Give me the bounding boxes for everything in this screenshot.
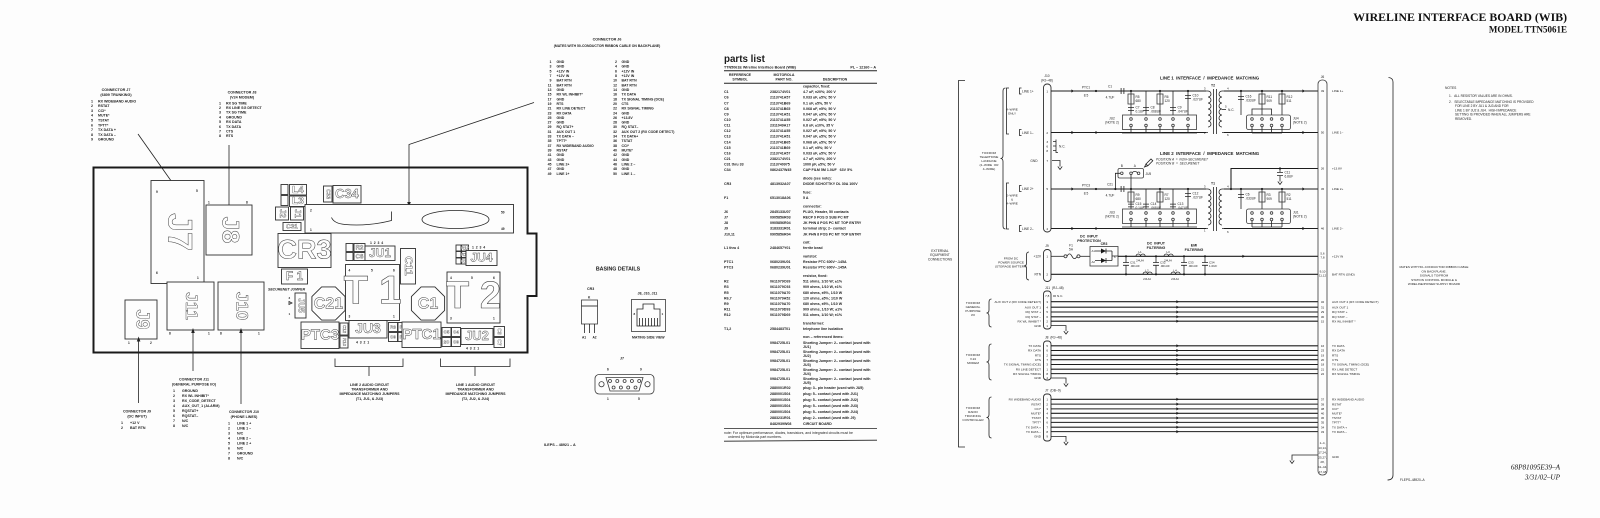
svg-text:34: 34 — [613, 135, 617, 139]
svg-text:44: 44 — [613, 158, 617, 162]
svg-text:JU1): JU1) — [803, 345, 812, 349]
jumper headers J2 J1 (board) — [276, 207, 289, 220]
svg-text:LINE 2 AUDIO CIRCUIT: LINE 2 AUDIO CIRCUIT — [350, 383, 390, 387]
svg-text:RECP 9 POS D SUB PC MT: RECP 9 POS D SUB PC MT — [803, 216, 850, 220]
svg-text:SYMBOL: SYMBOL — [732, 77, 748, 81]
svg-text:3: 3 — [219, 111, 221, 115]
jumper JU4 (schematic) — [1247, 115, 1291, 130]
svg-text:F1: F1 — [724, 196, 728, 200]
svg-text:41–44,: 41–44, — [1318, 465, 1327, 469]
svg-text:RQSTAT–: RQSTAT– — [182, 414, 198, 418]
leader line J7 label to J7 connector — [138, 134, 174, 185]
svg-text:(6809 TRUNKING): (6809 TRUNKING) — [100, 93, 132, 97]
svg-text:+12V IN: +12V IN — [1332, 255, 1343, 259]
svg-text:+12V IN: +12V IN — [622, 74, 635, 78]
svg-text:21: 21 — [1321, 367, 1325, 371]
svg-text:(DC INPUT): (DC INPUT) — [127, 415, 147, 419]
svg-text:6: 6 — [228, 447, 230, 451]
capacitor C33 (schematic) — [1183, 256, 1185, 274]
svg-text:49: 49 — [501, 227, 505, 231]
svg-text:GND: GND — [622, 111, 630, 115]
svg-text:RQ STAT +: RQ STAT + — [1332, 310, 1348, 314]
svg-text:varistor:: varistor: — [803, 255, 817, 259]
svg-text:CCI*: CCI* — [1332, 407, 1339, 411]
svg-text:1: 1 — [128, 341, 130, 345]
svg-text:RSTAT: RSTAT — [1332, 402, 1342, 406]
svg-text:0611079A70: 0611079A70 — [770, 291, 790, 295]
svg-text:2: 2 — [228, 427, 230, 431]
svg-text:POSITION B = SECURENET: POSITION B = SECURENET — [1156, 162, 1200, 166]
svg-text:GND: GND — [622, 153, 630, 157]
svg-text:RX LINE DETECT: RX LINE DETECT — [1016, 367, 1041, 371]
svg-text:40: 40 — [1321, 412, 1325, 416]
svg-text:A1: A1 — [582, 336, 586, 340]
svg-text:0984725L01: 0984725L01 — [770, 350, 790, 354]
svg-text:PTC1: PTC1 — [1082, 86, 1090, 90]
svg-text:7: 7 — [91, 128, 93, 132]
svg-text:1: 1 — [91, 99, 93, 103]
svg-text:EMI: EMI — [1191, 244, 1197, 248]
capacitor C34 (schematic) — [1204, 256, 1206, 274]
svg-text:7: 7 — [228, 452, 230, 456]
svg-text:17: 17 — [548, 97, 552, 101]
svg-text:120 ohms, ±5%; 1/10 W: 120 ohms, ±5%; 1/10 W — [803, 296, 843, 300]
svg-text:46: 46 — [613, 163, 617, 167]
svg-text:68P81095E39–A: 68P81095E39–A — [1511, 464, 1561, 472]
svg-text:MODEM: MODEM — [967, 361, 979, 365]
capacitor C34 (board) — [333, 186, 361, 204]
svg-text:5 A: 5 A — [803, 196, 809, 200]
svg-text:2: 2 — [219, 106, 221, 110]
svg-text:CONNECTOR J11: CONNECTOR J11 — [179, 378, 209, 382]
svg-text:6: 6 — [615, 69, 617, 73]
svg-text:1.0UF: 1.0UF — [1209, 264, 1217, 268]
svg-text:2: 2 — [91, 104, 93, 108]
svg-text:GND: GND — [1030, 159, 1038, 163]
svg-text:RQ STAT –: RQ STAT – — [1332, 315, 1348, 319]
svg-text:6: 6 — [219, 125, 221, 129]
svg-text:0611079D93: 0611079D93 — [770, 307, 790, 311]
svg-text:NOTES: NOTES — [1445, 86, 1457, 90]
svg-text:46: 46 — [1321, 227, 1325, 231]
svg-text:RQ STAT–: RQ STAT– — [622, 125, 639, 129]
svg-text:1000 pF, ±5%; 50 V: 1000 pF, ±5%; 50 V — [803, 163, 835, 167]
capacitor C13 — [1172, 189, 1174, 209]
svg-text:6: 6 — [156, 271, 158, 275]
svg-text:CTS: CTS — [226, 130, 234, 134]
svg-text:R5: R5 — [724, 291, 729, 295]
svg-text:TPTT*: TPTT* — [1332, 421, 1342, 425]
svg-text:6: 6 — [91, 123, 93, 127]
svg-text:RSTAT: RSTAT — [557, 149, 569, 153]
svg-text:24UH: 24UH — [1171, 277, 1179, 281]
connector J10 (board) — [218, 282, 264, 330]
svg-text:J6: J6 — [724, 210, 728, 214]
svg-text:37: 37 — [548, 144, 552, 148]
svg-text:TX DATA: TX DATA — [1028, 344, 1042, 348]
svg-text:J2: J2 — [278, 209, 287, 218]
svg-text:N.C.: N.C. — [1057, 294, 1063, 298]
jumper JU2 (schematic) — [1123, 115, 1197, 130]
svg-text:R11: R11 — [724, 307, 730, 311]
svg-text:parts list: parts list — [724, 54, 766, 65]
svg-text:2382174V01: 2382174V01 — [770, 157, 790, 161]
svg-text:GND: GND — [1034, 324, 1042, 328]
svg-text:(T2, JU2, & JU4): (T2, JU2, & JU4) — [462, 397, 490, 401]
svg-text:2113741B69: 2113741B69 — [770, 146, 790, 150]
svg-text:(NOTE 2): (NOTE 2) — [1293, 215, 1307, 219]
svg-text:24UH: 24UH — [1164, 259, 1172, 263]
svg-text:non – referenced items:: non – referenced items: — [803, 335, 844, 339]
svg-text:CR3: CR3 — [587, 287, 594, 291]
svg-text:3: 3 — [550, 65, 552, 69]
svg-text:LINE 1+: LINE 1+ — [557, 172, 570, 176]
resistor R12 — [1281, 91, 1283, 115]
svg-text:25: 25 — [548, 116, 552, 120]
svg-text:1 2 3 4: 1 2 3 4 — [370, 241, 383, 245]
resistor R5 — [1130, 91, 1132, 115]
svg-text:LINE 1 INTERFACE / IMPEDANC: LINE 1 INTERFACE / IMPEDANCE MATCHING — [1160, 76, 1260, 81]
svg-text:4: 4 — [173, 404, 175, 408]
svg-text:18: 18 — [1321, 363, 1325, 367]
group label: TO/FROM V.24 MODEM — [987, 344, 992, 380]
svg-text:0.068 uF, ±5%; 50 V: 0.068 uF, ±5%; 50 V — [803, 107, 836, 111]
svg-text:0611079D69: 0611079D69 — [770, 313, 790, 317]
svg-text:2880001S04: 2880001S04 — [770, 392, 790, 396]
svg-text:C21: C21 — [314, 296, 343, 313]
svg-text:0905856R04: 0905856R04 — [770, 221, 791, 225]
svg-text:LINE 1 –: LINE 1 – — [622, 172, 636, 176]
fuse F1 (board) — [282, 269, 308, 284]
svg-text:5: 5 — [550, 69, 552, 73]
svg-text:CONNECTOR J9: CONNECTOR J9 — [123, 410, 151, 414]
svg-text:J11 (RJ–48): J11 (RJ–48) — [1045, 286, 1064, 290]
svg-text:27: 27 — [548, 121, 552, 125]
svg-text:B: B — [1121, 164, 1123, 168]
svg-text:RX DATA: RX DATA — [1332, 349, 1346, 353]
svg-text:2883231R01: 2883231R01 — [770, 416, 791, 420]
svg-text:2113741B65: 2113741B65 — [770, 140, 790, 144]
svg-text:17,24,: 17,24, — [1318, 451, 1327, 455]
svg-text:WIRELINE INTERFACE BOARD (WIB): WIRELINE INTERFACE BOARD (WIB) — [1353, 10, 1567, 24]
svg-text:LINE 2–: LINE 2– — [1022, 227, 1034, 231]
svg-text:T1,2: T1,2 — [724, 327, 731, 331]
svg-text:38: 38 — [613, 144, 617, 148]
jumper JU5 (schematic) — [1118, 169, 1144, 179]
svg-text:0.068 uF, ±5%; 50 V: 0.068 uF, ±5%; 50 V — [803, 140, 836, 144]
capacitor C6 (schematic) — [1240, 189, 1242, 209]
svg-text:25,27,: 25,27, — [1318, 455, 1327, 459]
svg-text:R12: R12 — [461, 245, 470, 250]
svg-text:N/C: N/C — [237, 457, 244, 461]
svg-text:+12V IN: +12V IN — [557, 69, 570, 73]
svg-text:ONLY: ONLY — [1008, 112, 1016, 116]
svg-text:5: 5 — [91, 119, 93, 123]
svg-text:GROUND: GROUND — [226, 115, 242, 119]
svg-text:ferrite bead: ferrite bead — [803, 246, 823, 250]
svg-text:680 ohms, ±5%, 1/10 W: 680 ohms, ±5%, 1/10 W — [803, 291, 843, 295]
capacitor C7 — [1128, 108, 1134, 111]
svg-text:8: 8 — [615, 74, 617, 78]
group label: TO/FROM GENERAL PURPOSE I/O — [987, 299, 992, 327]
svg-text:RX WIDEBAND AUDIO: RX WIDEBAND AUDIO — [98, 99, 136, 103]
svg-text:J6: J6 — [1321, 75, 1325, 79]
svg-text:+12V IN: +12V IN — [622, 69, 635, 73]
svg-text:39: 39 — [548, 149, 552, 153]
svg-text:RX WL INHIBIT*: RX WL INHIBIT* — [182, 394, 209, 398]
small parts C5 C4 C2 C3 (board) — [442, 328, 451, 337]
svg-text:AUX OUT 1: AUX OUT 1 — [557, 130, 576, 134]
svg-text:RX LINE SG DETECT: RX LINE SG DETECT — [226, 106, 263, 110]
svg-text:GND: GND — [557, 60, 565, 64]
svg-text:TX DATA: TX DATA — [622, 93, 637, 97]
svg-text:DESCRIPTION: DESCRIPTION — [823, 77, 848, 81]
svg-text:4.7UF: 4.7UF — [1106, 194, 1115, 198]
svg-text:DC INPUT: DC INPUT — [1080, 235, 1099, 239]
svg-text:9: 9 — [91, 138, 93, 142]
svg-text:J7: J7 — [724, 216, 728, 220]
svg-text:TTN5061E Wireline Interface Bo: TTN5061E Wireline Interface Board (WIB) — [724, 66, 797, 70]
svg-text:N/C: N/C — [237, 447, 244, 451]
svg-text:680: 680 — [1136, 197, 1142, 201]
svg-text:PLUG, Header, 50 contacts: PLUG, Header, 50 contacts — [803, 210, 849, 214]
svg-text:RX SIGNAL TIMING: RX SIGNAL TIMING — [1013, 372, 1042, 376]
svg-text:GND: GND — [622, 167, 630, 171]
svg-text:.033UF: .033UF — [1246, 197, 1257, 201]
svg-text:26: 26 — [1321, 167, 1325, 171]
svg-text:32: 32 — [613, 130, 617, 134]
svg-text:4–WIRE: 4–WIRE — [1006, 202, 1018, 206]
svg-text:(GENERAL PURPOSE I/O): (GENERAL PURPOSE I/O) — [172, 383, 217, 387]
svg-text:2113741A57: 2113741A57 — [770, 96, 790, 100]
svg-text:C11: C11 — [724, 124, 730, 128]
svg-text:R8: R8 — [390, 325, 396, 330]
svg-text:R3: R3 — [724, 285, 729, 289]
svg-text:23: 23 — [1321, 349, 1325, 353]
svg-text:1: 1 — [1046, 89, 1048, 93]
svg-text:+12V IN: +12V IN — [557, 74, 570, 78]
svg-text:C9: C9 — [453, 340, 459, 345]
svg-text:6: 6 — [393, 269, 395, 273]
svg-text:4 3 2 1: 4 3 2 1 — [356, 341, 369, 345]
svg-text:plug: 5– contact (used with JU: plug: 5– contact (used with JU3) — [803, 404, 859, 408]
svg-text:0.047 uF, ±5%; 50 V: 0.047 uF, ±5%; 50 V — [803, 135, 836, 139]
svg-text:5: 5 — [219, 120, 221, 124]
svg-text:0.1UF: 0.1UF — [1136, 110, 1145, 114]
svg-text:33: 33 — [1321, 430, 1325, 434]
svg-text:GND: GND — [557, 116, 565, 120]
svg-text:J7 (DB–9): J7 (DB–9) — [1045, 389, 1061, 393]
svg-text:(MATES WITH 50-CONDUCTOR RIBBO: (MATES WITH 50-CONDUCTOR RIBBON CABLE ON… — [554, 44, 661, 48]
svg-text:(NOTE 2): (NOTE 2) — [1293, 121, 1307, 125]
svg-text:1: 1 — [173, 389, 175, 393]
svg-text:.047UF: .047UF — [1178, 110, 1189, 114]
svg-text:LINE 1–: LINE 1– — [1022, 131, 1034, 135]
svg-text:50: 50 — [1321, 131, 1325, 135]
svg-text:C9: C9 — [390, 335, 396, 340]
inductor L4 — [1171, 272, 1180, 274]
svg-text:TX DATA: TX DATA — [226, 125, 241, 129]
svg-text:coil:: coil: — [803, 241, 810, 245]
jumper JU3 (schematic) — [1123, 209, 1197, 224]
svg-text:2: 2 — [121, 426, 123, 430]
svg-text:A2: A2 — [1092, 260, 1096, 264]
svg-text:CONNECTOR J6: CONNECTOR J6 — [593, 38, 622, 42]
svg-text:plug: 2– contact (used with J9: plug: 2– contact (used with J9) — [803, 416, 856, 420]
svg-text:2311049A17: 2311049A17 — [770, 124, 790, 128]
pointer icon — [1145, 159, 1153, 167]
junctions on LINE1+ — [1130, 90, 1132, 92]
svg-text:14: 14 — [613, 88, 617, 92]
svg-text:C8: C8 — [496, 328, 502, 335]
svg-text:1. ALL RESISTOR VALUES ARE I: 1. ALL RESISTOR VALUES ARE IN OHMS. — [1449, 94, 1513, 98]
svg-text:2113741A55: 2113741A55 — [770, 118, 790, 122]
svg-text:4 3 2 1: 4 3 2 1 — [466, 347, 479, 351]
svg-text:35: 35 — [548, 139, 552, 143]
svg-text:11: 11 — [548, 83, 552, 87]
svg-text:MUTE*: MUTE* — [98, 114, 110, 118]
svg-text:1: 1 — [607, 397, 609, 401]
svg-text:30: 30 — [613, 125, 617, 129]
svg-text:L4: L4 — [1173, 269, 1177, 273]
svg-text:+13.8V: +13.8V — [1332, 167, 1343, 171]
wire: LINE1- bottom — [1051, 132, 1206, 134]
svg-text:MODEL TTN5061E: MODEL TTN5061E — [1489, 25, 1567, 35]
svg-text:CIRCUIT BOARD: CIRCUIT BOARD — [803, 422, 832, 426]
transformer T2 (board) — [447, 272, 500, 323]
leader line J8 label to J8 connector — [228, 145, 230, 207]
bracket: LINE 2 AUDIO CIRCUIT jumpers — [335, 359, 403, 377]
svg-text:31: 31 — [1321, 305, 1325, 309]
svg-text:GND: GND — [557, 158, 565, 162]
svg-text:(STORAGE BATTERY): (STORAGE BATTERY) — [995, 265, 1027, 269]
svg-text:909 ohms, 1/10 W, ±1%: 909 ohms, 1/10 W, ±1% — [803, 285, 843, 289]
svg-text:diode (see note):: diode (see note): — [803, 177, 832, 181]
svg-text:N/C: N/C — [182, 424, 189, 428]
svg-text:PTC3: PTC3 — [724, 266, 733, 270]
svg-text:L2: L2 — [1145, 269, 1149, 273]
svg-text:(RJ–48): (RJ–48) — [1041, 78, 1053, 82]
svg-text:GND: GND — [622, 121, 630, 125]
svg-text:0680239U01: 0680239U01 — [770, 260, 791, 264]
svg-text:C1: C1 — [724, 90, 729, 94]
svg-text:CTS: CTS — [1332, 358, 1338, 362]
svg-text:fuse:: fuse: — [803, 190, 812, 194]
svg-text:7,8: 7,8 — [1045, 294, 1050, 298]
resistor R6 — [1159, 91, 1161, 115]
svg-text:RX SIGNAL TIMING: RX SIGNAL TIMING — [1332, 372, 1361, 376]
svg-text:RX LINE DETECT: RX LINE DETECT — [557, 107, 587, 111]
svg-text:TPTT*: TPTT* — [1032, 421, 1042, 425]
svg-text:C9: C9 — [724, 112, 729, 116]
svg-text:JU2: JU2 — [465, 328, 489, 343]
svg-text:I/O: I/O — [971, 313, 976, 317]
small parts C8 C7 (board) — [494, 327, 505, 337]
svg-text:GND: GND — [1034, 376, 1042, 380]
svg-text:J11: J11 — [182, 292, 201, 319]
svg-text:7: 7 — [173, 419, 175, 423]
svg-text:909 ohms, 1/10 W; ±1%: 909 ohms, 1/10 W; ±1% — [803, 307, 843, 311]
svg-text:4.7 uF, ±20%; 200 V: 4.7 uF, ±20%; 200 V — [803, 157, 836, 161]
capacitor C1 (board) — [411, 287, 444, 320]
svg-text:5: 5 — [228, 442, 230, 446]
svg-text:CCI*: CCI* — [98, 109, 106, 113]
svg-text:N.C.: N.C. — [1059, 144, 1065, 148]
svg-text:LINE 2+: LINE 2+ — [1332, 187, 1343, 191]
svg-text:31: 31 — [548, 130, 552, 134]
2-WIRE & 4-WIRE bracket — [1007, 183, 1010, 229]
capacitor C8 — [1145, 91, 1147, 115]
svg-text:BAT RTN: BAT RTN — [622, 79, 638, 83]
svg-text:2: 2 — [173, 394, 175, 398]
svg-text:680: 680 — [1136, 99, 1142, 103]
svg-text:R9: R9 — [724, 302, 729, 306]
svg-text:+12 V: +12 V — [130, 421, 140, 425]
svg-text:18: 18 — [613, 97, 617, 101]
svg-text:REMOVED.: REMOVED. — [1455, 117, 1472, 121]
N.C. stub on T2 secondary — [1222, 109, 1226, 111]
svg-text:24: 24 — [613, 111, 617, 115]
svg-text:C1: C1 — [418, 296, 439, 313]
svg-text:J7: J7 — [161, 213, 199, 251]
svg-text:LINE 1 –: LINE 1 – — [237, 427, 251, 431]
svg-text:.001UF: .001UF — [1160, 264, 1170, 268]
svg-text:2880001S04: 2880001S04 — [770, 398, 790, 402]
svg-text:terminal strip; 2– contact: terminal strip; 2– contact — [803, 227, 847, 231]
svg-text:RX WL INHIBIT *: RX WL INHIBIT * — [1332, 319, 1356, 323]
wire: T2 secondary bottom to J6 pin 50 — [1224, 132, 1318, 134]
svg-text:0905856R03: 0905856R03 — [770, 216, 791, 220]
leader line J9 label — [138, 340, 140, 403]
svg-text:TX DATA: TX DATA — [1332, 344, 1346, 348]
svg-text:8: 8 — [173, 424, 175, 428]
svg-text:40: 40 — [613, 149, 617, 153]
svg-text:BASING DETAILS: BASING DETAILS — [596, 267, 641, 273]
svg-text:32: 32 — [1321, 300, 1325, 304]
svg-text:29: 29 — [1321, 310, 1325, 314]
svg-text:38: 38 — [1321, 407, 1325, 411]
svg-text:GROUND: GROUND — [237, 452, 253, 456]
svg-text:1: 1 — [550, 60, 552, 64]
svg-text:0.1 uF, ±5%; 50 V: 0.1 uF, ±5%; 50 V — [803, 146, 832, 150]
svg-text:C31: C31 — [286, 224, 298, 231]
svg-text:4: 4 — [615, 65, 617, 69]
svg-text:LINE 1 AUDIO CIRCUIT: LINE 1 AUDIO CIRCUIT — [456, 383, 496, 387]
svg-text:C4: C4 — [453, 330, 459, 335]
svg-text:2113740975: 2113740975 — [770, 163, 790, 167]
svg-text:36: 36 — [1321, 416, 1325, 420]
svg-text:5: 5 — [638, 397, 640, 401]
svg-text:GND: GND — [1034, 435, 1042, 439]
capacitor C31 (board) — [283, 223, 301, 231]
svg-text:3: 3 — [1046, 140, 1048, 144]
wire: T1 secondary bottom to J6 pin 46 — [1224, 228, 1318, 230]
svg-text:2: 2 — [1046, 272, 1048, 276]
connector J7 (board) — [151, 181, 204, 284]
svg-text:LINE 1–: LINE 1– — [1332, 131, 1343, 135]
svg-text:+12V: +12V — [1033, 255, 1041, 259]
svg-text:1: 1 — [208, 332, 210, 336]
svg-text:AUX OUT 2 (RX CODE DETECT): AUX OUT 2 (RX CODE DETECT) — [622, 130, 675, 134]
svg-text:50: 50 — [613, 172, 617, 176]
svg-text:Shorting Jumper: 2– contact (u: Shorting Jumper: 2– contact (used with — [803, 377, 871, 381]
svg-text:C8: C8 — [724, 107, 729, 111]
svg-text:RQ STAT +: RQ STAT + — [1025, 310, 1041, 314]
svg-text:1: 1 — [219, 101, 221, 105]
svg-text:2: 2 — [310, 209, 312, 213]
svg-text:2484657Y01: 2484657Y01 — [770, 246, 790, 250]
svg-text:transformer:: transformer: — [803, 321, 824, 325]
